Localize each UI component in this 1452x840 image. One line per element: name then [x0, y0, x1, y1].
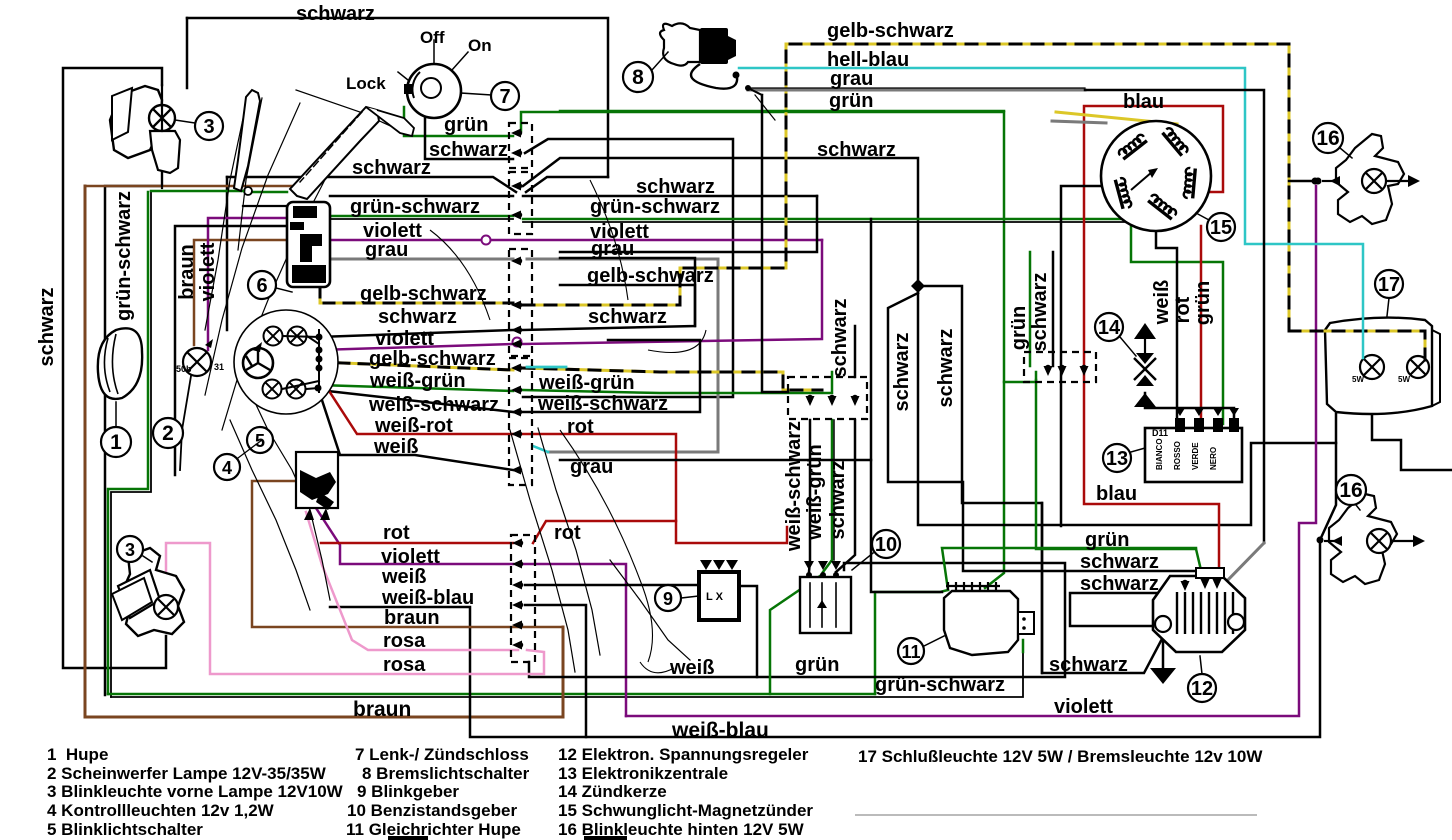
regulator body: [1153, 576, 1245, 652]
svg-text:weiß-schwarz: weiß-schwarz: [368, 394, 499, 416]
wire weiss-schwarz from headlight: [319, 390, 513, 412]
svg-text:Off: Off: [420, 28, 445, 47]
blinker rear top arrows: [1315, 178, 1322, 185]
connector column 4 pins: [1045, 365, 1051, 371]
wire rot east run y434 loop: [523, 434, 676, 543]
connector column 1 dashed boxes: [509, 123, 532, 168]
wire weiss-gruen down to 10: [823, 420, 832, 572]
svg-text:grau: grau: [830, 68, 873, 90]
svg-text:17 Schlußleuchte 12V 5W / Brem: 17 Schlußleuchte 12V 5W / Bremsleuchte 1…: [858, 747, 1263, 766]
wire schwarz regulator ground: [1162, 632, 1165, 668]
wire schwarz y158 long run: [523, 158, 918, 279]
wire weiss from headlight: [318, 388, 513, 470]
circle 4: [214, 454, 240, 480]
svg-text:gelb-schwarz: gelb-schwarz: [827, 20, 954, 42]
svg-text:11: 11: [901, 642, 920, 662]
wire grau from brake switch: [748, 89, 1085, 92]
svg-text:violett: violett: [1054, 696, 1113, 718]
wire hell-blau into taillight lamp: [1362, 318, 1365, 358]
svg-text:VERDE: VERDE: [1191, 442, 1200, 470]
wire schwarz control lamp bottom stub: [180, 376, 191, 470]
wire gelb-schwarz east lower: [523, 368, 822, 390]
wire schwarz junction right branch: [925, 286, 1163, 673]
tail light lamps: [1360, 355, 1384, 379]
svg-text:weiß-rot: weiß-rot: [374, 415, 453, 437]
svg-text:5W: 5W: [1398, 375, 1410, 384]
wire grau cyan tip: [533, 446, 548, 452]
svg-text:rot: rot: [1172, 296, 1194, 323]
svg-text:3: 3: [203, 116, 214, 138]
blinker front top lamp: [149, 105, 175, 131]
benzinstandgeber box: [800, 577, 851, 633]
svg-text:weiß-schwarz: weiß-schwarz: [537, 393, 668, 415]
regulator top pins: [1196, 568, 1224, 578]
tail light box: [1325, 318, 1432, 414]
wire violett from switch B: [316, 508, 513, 564]
regulator ground symbol: [1150, 668, 1176, 684]
circle 16 top: [1313, 123, 1343, 153]
svg-text:rot: rot: [567, 416, 594, 438]
wire schwarz connector3 up: [854, 326, 857, 377]
svg-text:9: 9: [663, 589, 673, 609]
svg-text:schwarz: schwarz: [36, 288, 58, 367]
svg-text:grün: grün: [1192, 281, 1214, 325]
wire violett across: [327, 239, 480, 242]
svg-text:6: 6: [256, 275, 267, 297]
svg-text:ROSSO: ROSSO: [1173, 441, 1182, 470]
svg-text:gelb-schwarz: gelb-schwarz: [369, 348, 496, 370]
circle 10: [872, 530, 900, 558]
flywheel magneto outer: [1101, 121, 1211, 231]
circle 14: [1095, 313, 1123, 341]
circle 1: [101, 427, 131, 457]
svg-text:10: 10: [875, 534, 897, 556]
scooter handlebar sketch: [205, 95, 248, 330]
flywheel coils: [1118, 133, 1147, 159]
svg-text:grün: grün: [829, 90, 873, 112]
wire violett headlight: [319, 344, 513, 350]
wire rosa 1 from switch B: [306, 512, 518, 650]
circle 9: [655, 585, 681, 611]
switch block B housing: [296, 452, 338, 508]
wire gruen-schwarz east run to flywheel area: [523, 219, 1223, 424]
svg-text:gelb-schwarz: gelb-schwarz: [360, 283, 487, 305]
svg-text:weiß-blau: weiß-blau: [381, 587, 474, 609]
wire violett east y339: [523, 240, 822, 344]
wire weiss-gruen east: [523, 372, 832, 393]
svg-text:grün-schwarz: grün-schwarz: [590, 196, 720, 218]
svg-text:1 Hupe: 1 Hupe: [47, 745, 108, 764]
svg-text:braun: braun: [176, 244, 198, 300]
svg-text:3: 3: [125, 540, 135, 560]
svg-text:13: 13: [1106, 448, 1128, 470]
violett open connector ring 2: [513, 338, 522, 347]
blinker front top housing: [110, 86, 162, 158]
svg-text:schwarz: schwarz: [636, 176, 715, 198]
wire schwarz maze r2: [560, 285, 695, 326]
blinker rear bottom arrows: [1324, 540, 1338, 542]
svg-text:schwarz: schwarz: [1080, 551, 1159, 573]
wire schwarz from connector to maze v1: [523, 139, 733, 397]
wire gruen branch to connector4 pin: [1004, 372, 1036, 382]
wire schwarz switch stub: [243, 205, 287, 207]
wire schwarz drop to blinker3top: [186, 18, 189, 88]
wire gelb-schwarz 2 from headlight: [319, 362, 513, 370]
wire schwarz switch to horn box: [175, 226, 287, 475]
wire schwarz maze h460 down: [871, 460, 942, 592]
pilot lamp 4: [287, 380, 306, 399]
wire weiss-schwarz east: [523, 340, 700, 412]
wire gruen from ignition switch to connector: [404, 107, 513, 136]
wire schwarz bottom loop y677: [529, 563, 1065, 677]
control lamp: [183, 348, 211, 376]
svg-text:schwarz: schwarz: [827, 461, 849, 540]
svg-text:weiß: weiß: [381, 566, 426, 588]
svg-text:gelb-schwarz: gelb-schwarz: [587, 265, 714, 287]
svg-text:BIANCO: BIANCO: [1155, 438, 1164, 470]
svg-text:5 Blinklichtschalter: 5 Blinklichtschalter: [47, 820, 203, 839]
wire gruen from box10 down: [770, 576, 820, 694]
wire weiss flywheel down to 13: [1156, 226, 1177, 424]
wire schwarz junction diag branch to regulator: [888, 293, 1208, 584]
blinkgeber pins: [700, 560, 712, 570]
svg-text:violett: violett: [375, 328, 434, 350]
svg-text:grau: grau: [365, 239, 408, 261]
svg-text:blau: blau: [1123, 91, 1164, 113]
wire gruen long from brake area: [560, 110, 1004, 113]
wire weiss-gruen from headlight: [319, 385, 513, 391]
circle 15: [1207, 213, 1235, 241]
rectifier comb pins: [946, 582, 1000, 590]
wire gelb-schwarz 1 from switch to connector: [320, 287, 513, 303]
wire schwarz spark plug down to 13: [1145, 393, 1234, 424]
svg-text:10 Benzistandsgeber: 10 Benzistandsgeber: [347, 801, 517, 820]
svg-text:weiß: weiß: [669, 657, 714, 679]
spark plug symbol: [1134, 323, 1156, 339]
svg-text:On: On: [468, 36, 492, 55]
svg-text:schwarz: schwarz: [829, 299, 851, 378]
wire gelb-schwarz across taillight: [1289, 331, 1425, 360]
circle 17: [1375, 270, 1403, 298]
blinker rear bottom lamp: [1367, 529, 1391, 553]
circle 13: [1103, 444, 1131, 472]
svg-text:weiß-schwarz: weiß-schwarz: [783, 421, 805, 552]
wire grau flywheel top left: [1052, 121, 1106, 123]
wire gruen-schwarz stub to rectifier tab: [1022, 640, 1025, 652]
wire braun switch B: [252, 481, 563, 627]
wire hell-blau stub on gelb line: [527, 366, 566, 369]
wire gelb-schwarz top long run to right: [1080, 44, 1289, 331]
svg-text:NERO: NERO: [1209, 447, 1218, 470]
handlebar lever left: [234, 90, 260, 191]
svg-text:schwarz: schwarz: [296, 3, 375, 25]
wire weiss-rot red from headlight: [320, 377, 513, 434]
svg-text:weiß: weiß: [373, 436, 418, 458]
svg-text:schwarz: schwarz: [1080, 573, 1159, 595]
svg-text:7 Lenk-/ Zündschloss: 7 Lenk-/ Zündschloss: [355, 745, 529, 764]
svg-text:weiß-blau: weiß-blau: [671, 719, 769, 742]
wire weiss-blau label line: [330, 540, 1320, 737]
pilot lamp 2: [288, 327, 307, 346]
wire schwarz regulator window: [1070, 585, 1185, 626]
wire schwarz maze v3: [560, 196, 817, 252]
elektronikzentrale box: [1145, 428, 1242, 482]
horn body: [98, 328, 142, 399]
pilot lamp 1: [264, 327, 283, 346]
wire violett from switch down to control lamp: [208, 218, 287, 350]
wire braun left vertical and long bottom run: [85, 186, 563, 717]
wire gruen-schwarz left vertical: [108, 192, 148, 694]
wire schwarz down to 10: [836, 420, 855, 572]
connector column 3 pins: [807, 395, 813, 401]
circle 3 top: [195, 112, 223, 140]
wire grau east loop: [527, 259, 718, 452]
svg-text:8 Bremslichtschalter: 8 Bremslichtschalter: [362, 764, 530, 783]
svg-text:8: 8: [632, 66, 644, 89]
circle 11: [898, 638, 924, 664]
svg-text:4: 4: [222, 458, 232, 478]
wire schwarz from ignition switch to connector: [425, 105, 513, 159]
svg-text:braun: braun: [353, 698, 411, 721]
svg-text:schwarz: schwarz: [891, 333, 913, 412]
svg-text:rosa: rosa: [383, 654, 426, 676]
svg-text:weiß-grün: weiß-grün: [804, 444, 826, 541]
wire schwarz left vertical from switch frame: [226, 177, 229, 330]
wire rot from handlebar switch B: [321, 542, 513, 545]
svg-text:weiß-grün: weiß-grün: [369, 370, 466, 392]
wire weiss-schwarz down to 10: [809, 420, 810, 572]
svg-text:schwarz: schwarz: [588, 306, 667, 328]
svg-text:rot: rot: [383, 522, 410, 544]
svg-text:17: 17: [1378, 274, 1400, 296]
wire gruen rectifier to regulator y548: [942, 548, 1196, 590]
circle 16 bottom: [1336, 475, 1366, 505]
wire braun upper horizontal to switch: [85, 185, 310, 188]
svg-text:7: 7: [499, 86, 510, 108]
svg-text:braun: braun: [384, 607, 440, 629]
svg-text:schwarz: schwarz: [378, 306, 457, 328]
regulator fins: [1176, 592, 1178, 634]
wire schwarz second-left vertical: [105, 186, 162, 695]
svg-text:Lock: Lock: [346, 74, 386, 93]
wire gruen connector4 to regulator: [1036, 380, 1204, 583]
connector column 2 dashed box: [511, 535, 535, 662]
svg-text:schwarz: schwarz: [352, 157, 431, 179]
scooter front fork lines: [250, 392, 330, 600]
wire gruen-schwarz from switch to connector: [330, 215, 513, 218]
rectifier body: [944, 591, 1018, 655]
elektronikzentrale top tabs: [1175, 418, 1185, 432]
svg-text:15: 15: [1210, 217, 1232, 239]
svg-text:5W: 5W: [1352, 375, 1364, 384]
circle 8: [623, 62, 653, 92]
blinker rear bottom housing: [1329, 494, 1397, 584]
flywheel center arrow: [1131, 172, 1152, 190]
svg-text:grün: grün: [795, 654, 839, 676]
svg-text:12: 12: [1191, 678, 1213, 700]
wire schwarz label line left: [227, 177, 516, 192]
svg-text:14 Zündkerze: 14 Zündkerze: [558, 782, 667, 801]
svg-text:D11: D11: [1152, 428, 1168, 438]
blinker rear top housing: [1336, 134, 1404, 224]
wire weiss riser to blinkgeber: [739, 586, 757, 677]
wire schwarz maze v4: [560, 219, 871, 460]
switch block B pins: [304, 508, 314, 520]
svg-text:weiß-grün: weiß-grün: [538, 372, 635, 394]
wire violett from connector2 down-east: [521, 564, 626, 716]
svg-text:13 Elektronikzentrale: 13 Elektronikzentrale: [558, 764, 728, 783]
wire gruen connector4 down: [1029, 252, 1032, 366]
wire schwarz handlebar to connector: [330, 195, 513, 198]
connector column 4 dashed box: [1024, 352, 1096, 382]
connector column 1 pins: [516, 130, 522, 136]
circle 12: [1188, 674, 1216, 702]
svg-text:weiß: weiß: [1151, 280, 1173, 325]
svg-text:grau: grau: [591, 238, 634, 260]
wire blinker16bottom dot: [1317, 537, 1324, 544]
svg-text:grün-schwarz: grün-schwarz: [113, 191, 135, 321]
wire gruen branch up to rectifier comb: [875, 590, 948, 694]
wire rosa 2 from blinker bottom-left: [166, 543, 544, 674]
svg-text:schwarz: schwarz: [429, 139, 508, 161]
svg-text:14: 14: [1098, 317, 1121, 339]
svg-text:2 Scheinwerfer Lampe 12V-35/35: 2 Scheinwerfer Lampe 12V-35/35W: [47, 764, 327, 783]
wire weiss run from connector2 to blinkgeber: [525, 584, 699, 587]
svg-text:grün-schwarz: grün-schwarz: [875, 674, 1005, 696]
wire braun from switch A leftwards: [194, 240, 287, 345]
svg-text:violett: violett: [197, 242, 219, 301]
svg-text:L X: L X: [706, 591, 724, 603]
wire rot flywheel down to 13: [1200, 226, 1203, 424]
svg-text:grün: grün: [1085, 529, 1129, 551]
wire weiss-blau connector stub: [525, 605, 586, 737]
circle 6: [248, 271, 276, 299]
blinker bottom-left lamp: [154, 595, 178, 619]
wire schwarz taillight left side down to blinker16b: [1320, 414, 1336, 540]
svg-text:12 Elektron. Spannungsregeler: 12 Elektron. Spannungsregeler: [558, 745, 809, 764]
circle 7: [491, 82, 519, 110]
svg-text:schwarz: schwarz: [817, 139, 896, 161]
svg-text:blau: blau: [1096, 483, 1137, 505]
wire gelb flywheel top left: [1056, 112, 1177, 124]
wire gruen-schwarz long bottom horizontal: [108, 693, 875, 696]
pilot lamp 3: [263, 380, 282, 399]
blinker bottom-left housing: [122, 548, 184, 636]
scooter floor sketch: [560, 430, 653, 662]
wire schwarz junction down branch y525: [918, 293, 1336, 525]
junction diamond: [911, 279, 925, 293]
brake switch body: [660, 23, 700, 65]
svg-text:4 Kontrollleuchten 12v 1,2W: 4 Kontrollleuchten 12v 1,2W: [47, 801, 275, 820]
benzinstandgeber pins: [806, 572, 812, 578]
wire violett vertical at right to blinker16: [626, 186, 1316, 716]
svg-text:16: 16: [1339, 479, 1362, 502]
svg-text:50b: 50b: [176, 364, 192, 374]
svg-text:schwarz: schwarz: [935, 329, 957, 408]
svg-text:grau: grau: [570, 456, 613, 478]
svg-text:grün-schwarz: grün-schwarz: [350, 196, 480, 218]
svg-text:violett: violett: [381, 546, 440, 568]
wire schwarz headlight to connector: [319, 330, 513, 337]
svg-text:11 Gleichrichter Hupe: 11 Gleichrichter Hupe: [346, 820, 521, 839]
wire rot east segment: [676, 521, 787, 543]
svg-text:schwarz: schwarz: [1049, 654, 1128, 676]
blinkgeber box: [699, 572, 739, 620]
svg-text:rot: rot: [554, 522, 581, 544]
wire gruen long run east down to rectifier: [521, 112, 1004, 588]
svg-text:rosa: rosa: [383, 630, 426, 652]
svg-text:grün: grün: [444, 114, 488, 136]
wire gruen-schwarz left branch with connector ring: [253, 191, 287, 194]
violett open connector ring: [482, 236, 491, 245]
switch block A housing: [287, 202, 330, 287]
wire schwarz brake switch down: [762, 95, 788, 392]
ignition switch: [407, 64, 461, 118]
legend separator line: [856, 814, 1256, 816]
regulator bolts: [1155, 616, 1171, 632]
wire schwarz connector4 down: [1052, 252, 1055, 366]
blinker front top stem: [150, 131, 180, 173]
svg-text:schwarz: schwarz: [1029, 273, 1051, 352]
svg-text:31: 31: [214, 362, 224, 372]
svg-text:grün: grün: [1008, 306, 1030, 350]
svg-text:1: 1: [110, 431, 122, 454]
svg-text:15 Schwunglicht-Magnetzünder: 15 Schwunglicht-Magnetzünder: [558, 801, 813, 820]
connector column 3 dashed box: [788, 377, 867, 419]
wire schwarz flywheel to left: [1061, 186, 1103, 526]
wire schwarz far-left vertical: [63, 68, 166, 668]
connector column 2 pins: [517, 540, 523, 546]
handlebar lever right with grip: [290, 107, 379, 199]
wire schwarz taillight down: [1372, 380, 1452, 470]
blinker rear top lamp: [1362, 169, 1386, 193]
wire schwarz maze to right edge: [1041, 503, 1044, 673]
wire gelb-schwarz east run upper: [523, 44, 1080, 305]
legend clipped row bottom edge marks: [388, 836, 428, 840]
svg-text:2: 2: [162, 422, 174, 445]
wire schwarz top-left loop: [187, 18, 608, 177]
svg-text:16: 16: [1316, 127, 1339, 150]
wire rot flywheel loop to regulator: [1084, 106, 1223, 583]
headlight rim: [234, 310, 338, 414]
wire hell-blau from brake switch: [739, 68, 1363, 318]
wire blinker16top feeds: [1289, 180, 1311, 183]
headlight wire fanout: [283, 336, 319, 337]
svg-text:9 Blinkgeber: 9 Blinkgeber: [357, 782, 459, 801]
wire schwarz east run y326: [523, 258, 695, 330]
circle 5: [247, 427, 273, 453]
headlight main lamp: [243, 348, 273, 378]
rectifier tab: [1018, 612, 1034, 634]
svg-text:3 Blinkleuchte vorne Lampe 12V: 3 Blinkleuchte vorne Lampe 12V10W: [47, 782, 344, 801]
wire grau from switch to connector: [330, 258, 513, 261]
circle 2: [153, 418, 183, 448]
circle 3 bottom: [117, 536, 143, 562]
wire schwarz connector east y196: [523, 195, 817, 198]
